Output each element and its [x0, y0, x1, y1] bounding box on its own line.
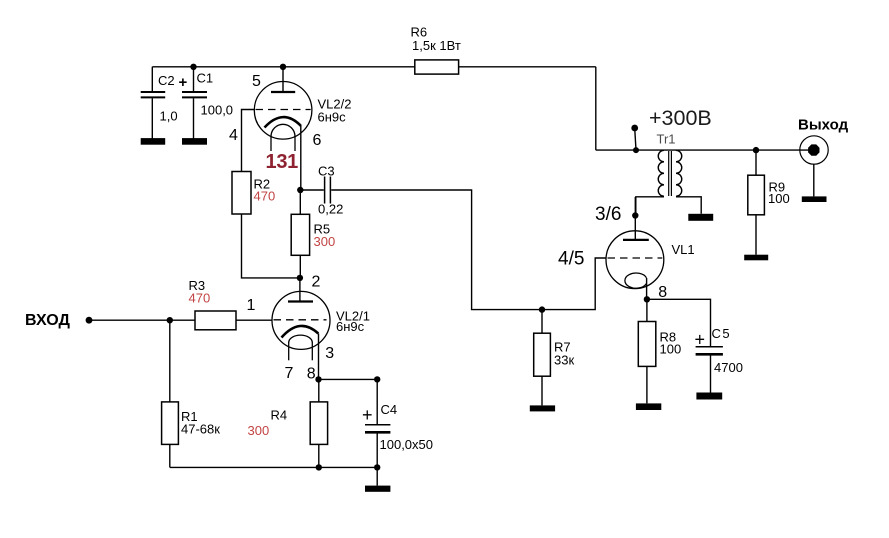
node VL2/2 anode top [280, 64, 286, 70]
wire R7 top lead [541, 310, 543, 334]
node R4 bottom [316, 464, 322, 470]
wire plate rail to output [596, 149, 809, 151]
wire VL2/2 grid lead [242, 110, 255, 172]
svg-text:6н9с: 6н9с [336, 319, 365, 334]
svg-text:33к: 33к [554, 353, 574, 368]
tube VL2/2 [254, 82, 312, 152]
ground C5 [696, 393, 722, 400]
svg-text:3: 3 [325, 345, 334, 362]
svg-text:VL1: VL1 [672, 242, 695, 257]
wire VL1 pin8 lead [646, 278, 648, 299]
wire C5 bottom lead [710, 355, 712, 392]
wire C2 leads [151, 67, 153, 139]
svg-text:Tr1: Tr1 [657, 132, 676, 147]
svg-text:ВХОД: ВХОД [25, 312, 70, 329]
svg-text:47-68к: 47-68к [181, 422, 220, 437]
svg-text:1,5к 1Вт: 1,5к 1Вт [412, 38, 461, 53]
svg-text:7: 7 [285, 365, 294, 382]
resistor R5 [291, 214, 309, 255]
wire transformer secondary bottom [676, 197, 701, 214]
wire R1 top lead [169, 320, 171, 402]
svg-text:4: 4 [229, 127, 238, 144]
svg-text:6н9с: 6н9с [318, 110, 347, 125]
node pin2 junction [297, 275, 303, 281]
svg-text:R4: R4 [271, 408, 288, 423]
wire R4 leads [318, 379, 320, 467]
resistor R4 [310, 402, 327, 445]
wire pin2 anode lead [299, 278, 301, 301]
wire R8 leads [646, 299, 648, 403]
ground C4 [365, 486, 390, 492]
wire VL2/2 pin6 lead [300, 126, 302, 190]
ground Tr1 secondary [688, 214, 713, 221]
wire VL2/1 pin3 lead [318, 334, 320, 380]
wire top rail left [152, 66, 415, 68]
svg-text:4700: 4700 [714, 360, 743, 375]
svg-text:6: 6 [313, 132, 322, 149]
svg-text:100,0: 100,0 [201, 103, 234, 118]
ground C1 [182, 138, 207, 145]
wire pin3 junction to C4 [319, 378, 378, 380]
svg-text:300: 300 [314, 234, 336, 249]
node C4 top junction [374, 376, 380, 382]
svg-text:470: 470 [254, 189, 276, 204]
node input R1 R3 junction [167, 317, 173, 323]
node C4 bottom ground [374, 464, 380, 470]
svg-text:1,0: 1,0 [160, 109, 178, 124]
svg-text:+300В: +300В [649, 106, 712, 130]
svg-text:+: + [179, 74, 188, 91]
svg-text:0,22: 0,22 [318, 202, 343, 217]
resistor R6 [415, 60, 459, 74]
resistor R2 [232, 172, 251, 215]
wire R5 leads [299, 190, 301, 278]
node VL1 anode junction [632, 212, 638, 218]
node R7 junction [539, 306, 545, 312]
wire top rail drop [595, 67, 597, 150]
svg-text:470: 470 [189, 291, 211, 306]
svg-text:C5: C5 [712, 326, 732, 341]
svg-text:+: + [695, 330, 706, 350]
output connector [800, 136, 828, 164]
node plus300 terminal [631, 125, 638, 132]
wire VL2/2 anode lead [282, 67, 284, 91]
svg-text:4/5: 4/5 [558, 249, 584, 270]
svg-text:5: 5 [252, 73, 261, 90]
ground output [802, 196, 827, 202]
node C3 R5 junction [297, 187, 303, 193]
wire junction to C3 [300, 189, 324, 191]
wire transformer primary bottom [636, 197, 664, 216]
svg-text:C4: C4 [381, 402, 398, 417]
resistor R3 [195, 311, 236, 330]
svg-text:1: 1 [247, 297, 256, 314]
svg-text:+: + [362, 405, 373, 425]
wire pin8 junction to C5 [647, 299, 711, 346]
ground R7 [530, 405, 555, 411]
wire R9 leads [755, 150, 757, 255]
wire VL2/1 grid lead [236, 319, 272, 321]
wire bottom rail [170, 466, 377, 468]
ground R9 [744, 255, 768, 261]
wire R7 bottom lead [541, 376, 543, 405]
node pin3 junction [315, 376, 321, 382]
ground R8 [636, 403, 661, 410]
svg-text:2: 2 [312, 274, 321, 291]
wire plus300 terminal lead [635, 128, 636, 150]
svg-text:C2: C2 [158, 73, 175, 88]
ground C2 [141, 138, 166, 145]
svg-text:100,0х50: 100,0х50 [380, 437, 434, 452]
wire C3 to VL1 grid run [331, 190, 606, 310]
capacitor C4 [365, 425, 390, 433]
wire input [89, 319, 195, 321]
svg-text:100: 100 [660, 342, 682, 357]
capacitor C2 [141, 92, 166, 97]
transformer Tr1 [658, 150, 682, 196]
svg-text:C1: C1 [197, 71, 214, 86]
resistor R8 [638, 322, 656, 367]
svg-text:3/6: 3/6 [595, 204, 621, 225]
wire C1 leads [193, 67, 195, 139]
capacitor C3 [325, 177, 331, 204]
capacitor C1 [182, 92, 207, 97]
wire R2 bottom to pin2 junction [242, 214, 300, 278]
node input terminal [86, 317, 93, 324]
node R9 junction [753, 147, 759, 153]
resistor R1 [162, 402, 179, 445]
svg-text:131: 131 [266, 151, 299, 173]
resistor R9 [748, 175, 765, 215]
wire output ground lead [813, 164, 815, 197]
wire C4 leads [376, 379, 378, 485]
svg-text:300: 300 [248, 423, 270, 438]
node C1 top [190, 64, 196, 70]
capacitor C5 [696, 347, 723, 355]
node pin8 junction [644, 296, 650, 302]
wire VL1 anode lead [634, 197, 636, 240]
wire top rail right of R6 [459, 66, 596, 68]
wire R1 bottom lead [169, 444, 171, 467]
resistor R7 [534, 333, 551, 376]
tube VL2/1 [272, 291, 330, 360]
svg-text:C3: C3 [318, 164, 335, 179]
svg-text:8: 8 [658, 284, 667, 301]
svg-text:100: 100 [768, 191, 790, 206]
node plus300 wire junction [633, 147, 639, 153]
tube VL1 [606, 231, 664, 289]
svg-text:Выход: Выход [798, 117, 849, 134]
svg-text:8: 8 [307, 366, 316, 383]
